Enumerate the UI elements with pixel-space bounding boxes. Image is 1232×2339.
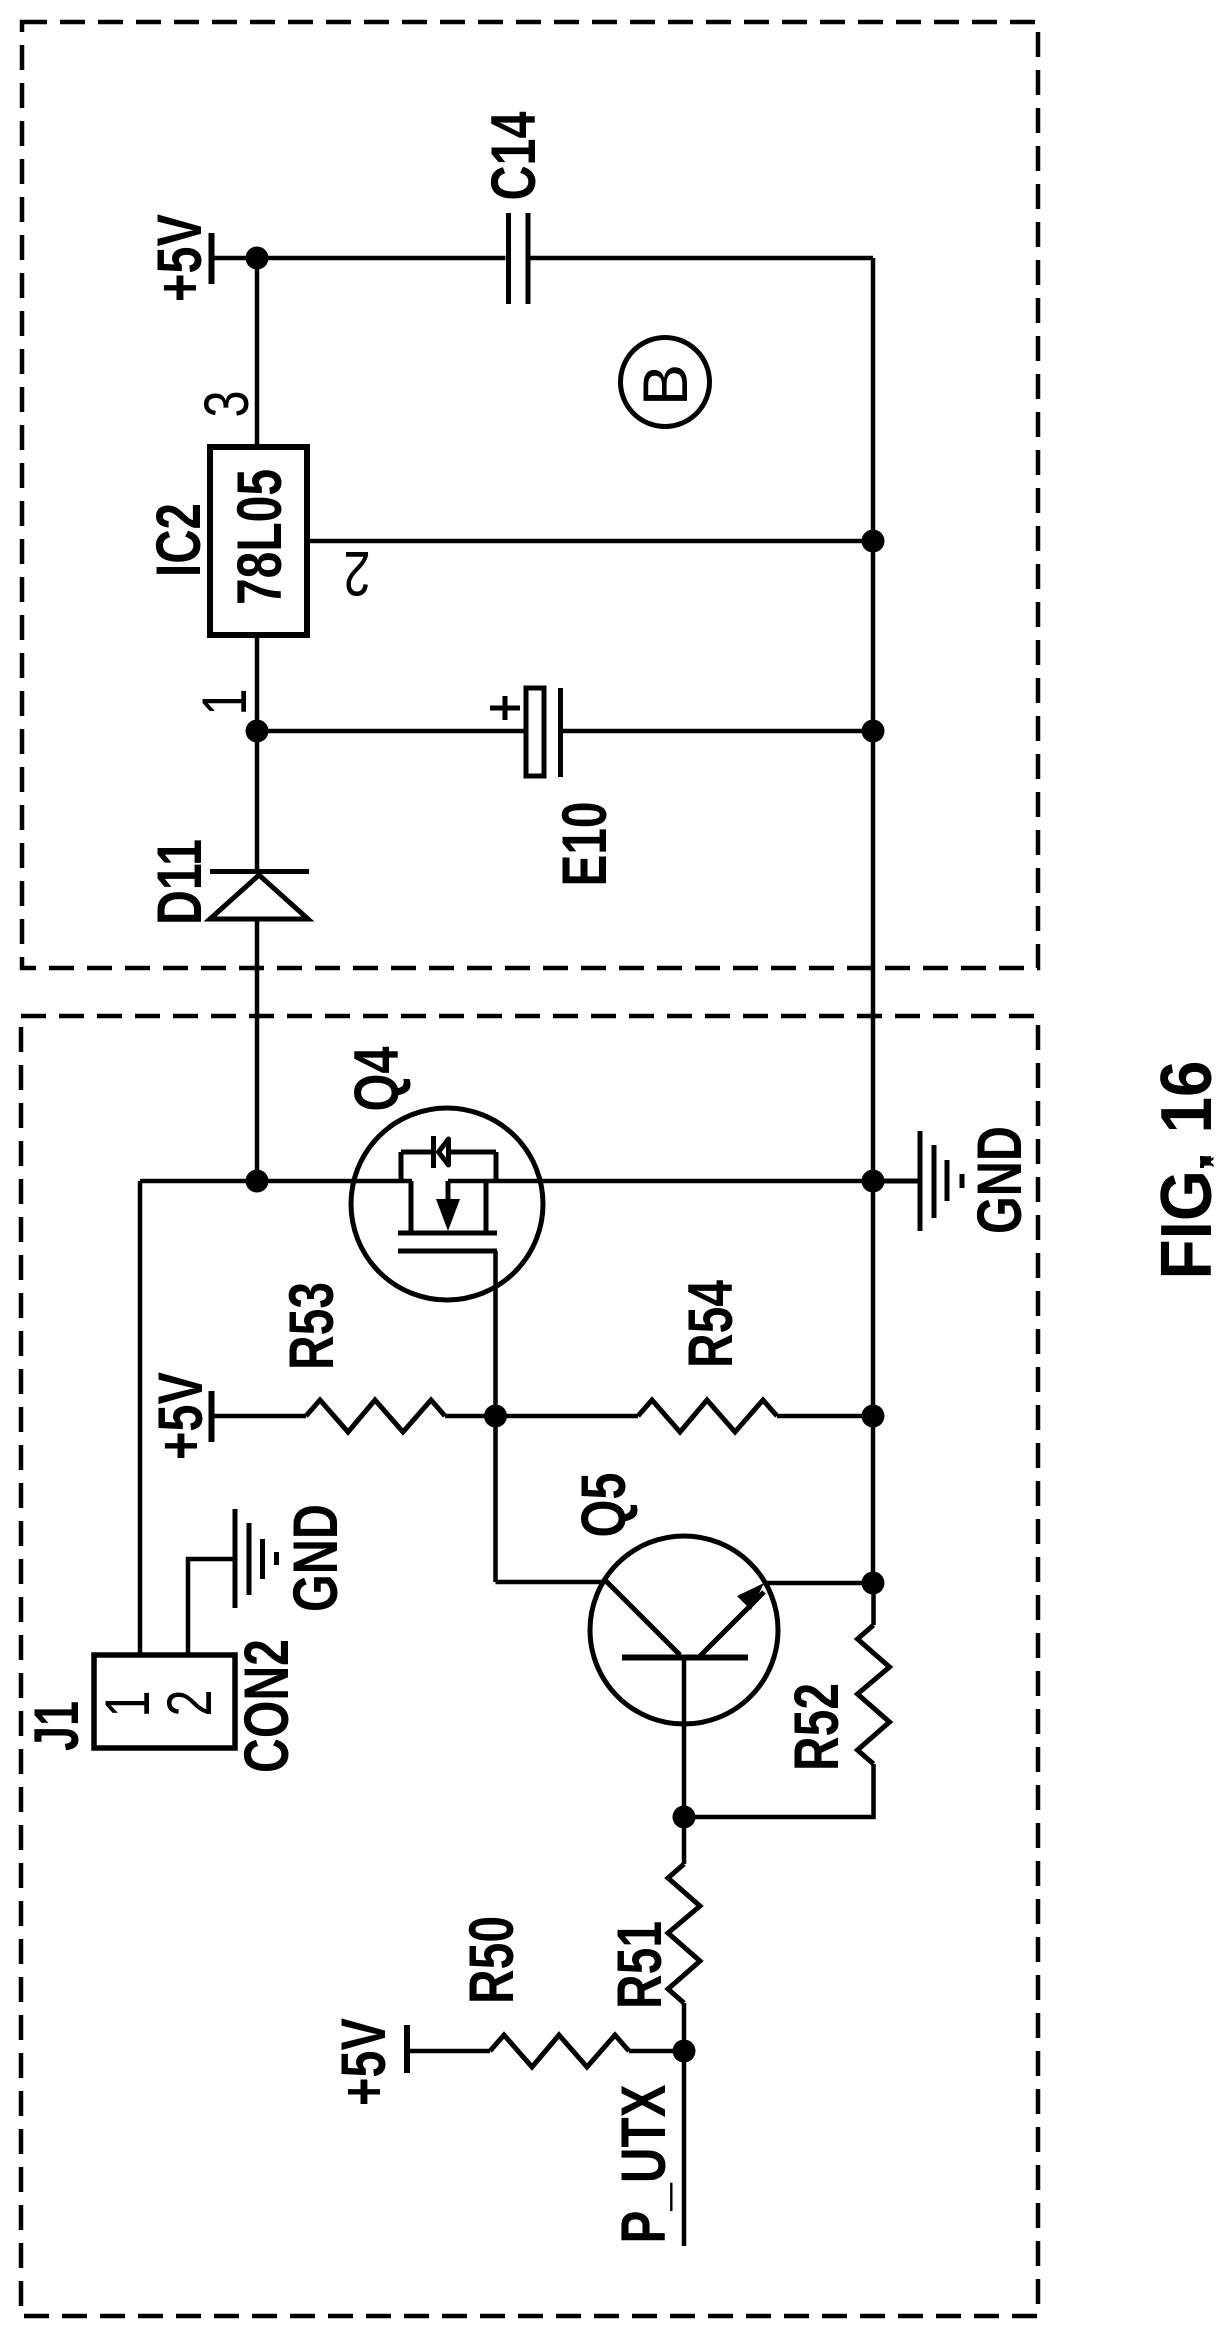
wire IC2 pin 1 down	[255, 635, 260, 871]
wire D11 anode down to main rail	[255, 919, 260, 1181]
resistor R53	[306, 1400, 445, 1432]
node main rail / GND	[862, 1170, 885, 1193]
electrolytic capacitor E10	[490, 688, 561, 777]
node E10 right	[862, 720, 885, 743]
wire R51 to node	[682, 2003, 687, 2051]
svg-text:GND: GND	[281, 1504, 351, 1612]
dashed box region B (top)	[22, 22, 1038, 968]
svg-text:+5V: +5V	[146, 1372, 216, 1460]
wire node down to IC2 pin 3	[255, 258, 260, 447]
Q4 gate lead down to node	[493, 1251, 498, 1416]
right vertical bus wire	[871, 258, 876, 1583]
wire IC2 pin 2 to right bus	[307, 539, 873, 544]
left vertical wire to J1 pin1	[138, 1181, 143, 1655]
resistor R50	[490, 2035, 629, 2067]
diode D11	[210, 872, 309, 920]
svg-text:Q5: Q5	[569, 1473, 639, 1538]
transistor Q4 (P-MOSFET)	[351, 1108, 543, 1300]
node D11/main rail	[246, 1170, 269, 1193]
svg-text:3: 3	[192, 391, 262, 418]
transistor Q5 (NPN)	[590, 1536, 778, 1724]
svg-text:78L05: 78L05	[225, 469, 295, 605]
node R54/bus	[862, 1405, 885, 1428]
wire R50 to node	[629, 2049, 684, 2054]
main horizontal rail (left segment)	[140, 1179, 412, 1184]
node emitter/bus	[862, 1572, 885, 1595]
svg-text:Q4: Q4	[342, 1047, 412, 1112]
svg-text:C14: C14	[479, 112, 549, 201]
voltage regulator IC2 box	[210, 447, 307, 635]
wire base node to R51	[682, 1817, 687, 1864]
svg-text:J1: J1	[22, 1701, 92, 1751]
svg-text:1: 1	[190, 689, 260, 716]
Q5 collector lead	[493, 1416, 498, 1582]
capacitor C14	[509, 213, 529, 304]
svg-text:FIG. 16: FIG. 16	[1147, 1061, 1227, 1280]
wire E10 to right bus	[563, 729, 873, 734]
resistor R51	[668, 1864, 700, 2003]
svg-text:2: 2	[155, 1690, 225, 1717]
Q5 base lead down	[682, 1657, 687, 1817]
wire R53 to R54	[445, 1414, 638, 1419]
net stub P_UTX	[682, 2051, 687, 2246]
small mark	[1198, 1156, 1219, 1168]
svg-text:+5V: +5V	[329, 2018, 399, 2106]
node base/R52/R51	[673, 1806, 696, 1829]
svg-text:GND: GND	[965, 1126, 1035, 1234]
svg-text:2: 2	[344, 538, 371, 608]
svg-text:R53: R53	[277, 1282, 347, 1370]
connector J1 box	[94, 1655, 235, 1748]
+5V symbol (R53)	[212, 1391, 307, 1442]
svg-text:1: 1	[93, 1691, 163, 1718]
node pin1/E10	[246, 720, 269, 743]
node gate/R53/R54	[484, 1405, 507, 1428]
svg-text:R52: R52	[782, 1683, 852, 1771]
svg-text:+5V: +5V	[145, 214, 215, 302]
wire R52 to base node	[684, 1764, 874, 1817]
ground symbol GND (left)	[235, 1509, 277, 1608]
node at +5V	[246, 247, 269, 270]
svg-text:E10: E10	[550, 802, 620, 887]
svg-text:D11: D11	[145, 839, 215, 925]
svg-text:B: B	[631, 364, 701, 406]
svg-text:P_UTX: P_UTX	[609, 2085, 679, 2244]
wire bus to R52	[871, 1583, 876, 1625]
resistor R52	[858, 1625, 890, 1764]
Q5 emitter wire to bus	[764, 1581, 873, 1586]
svg-text:R54: R54	[676, 1280, 746, 1368]
+5V symbol (R50)	[407, 2025, 490, 2073]
node R51/R50/P_UTX	[673, 2040, 696, 2063]
svg-text:R50: R50	[457, 1916, 527, 2004]
wire C14 to right bus	[531, 256, 874, 261]
right bus node at pin2	[862, 530, 885, 553]
resistor R54	[638, 1400, 777, 1432]
wire node to E10	[257, 729, 526, 734]
main rail right segment	[448, 1179, 873, 1184]
wire R54 to bus	[777, 1414, 873, 1419]
svg-text:R51: R51	[605, 1921, 675, 2009]
ground symbol GND (right)	[873, 1131, 962, 1231]
J1 pin2 wire up	[188, 1559, 234, 1655]
svg-text:CON2: CON2	[232, 1639, 302, 1773]
svg-text:IC2: IC2	[144, 503, 214, 577]
dashed box region bottom	[21, 1016, 1038, 2316]
wire +5V node to C14	[257, 256, 506, 261]
circle label B	[621, 338, 710, 427]
+5V symbol (top)	[212, 233, 258, 284]
